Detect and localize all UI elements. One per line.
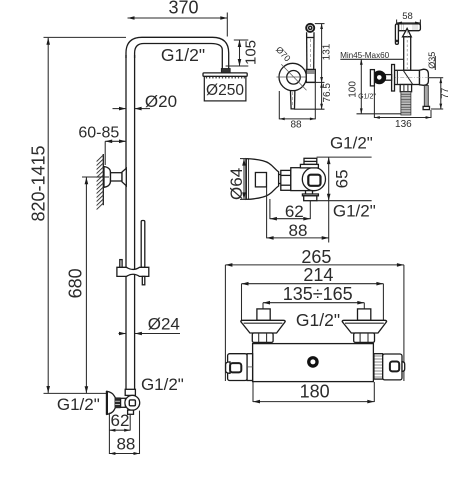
svg-text:62: 62 <box>285 202 304 221</box>
svg-text:820-1415: 820-1415 <box>28 145 48 221</box>
svg-text:G1/2": G1/2" <box>161 45 205 65</box>
svg-text:Ø250: Ø250 <box>206 82 244 99</box>
svg-text:131: 131 <box>322 43 333 60</box>
svg-text:265: 265 <box>301 247 331 267</box>
svg-text:G1/2": G1/2" <box>358 94 376 101</box>
svg-text:Ø64: Ø64 <box>227 168 246 200</box>
svg-text:60-85: 60-85 <box>78 125 119 142</box>
svg-text:58: 58 <box>402 11 413 22</box>
svg-text:G1/2": G1/2" <box>330 134 373 153</box>
svg-text:136: 136 <box>395 119 412 130</box>
svg-text:88: 88 <box>290 120 302 131</box>
svg-text:88: 88 <box>289 221 308 240</box>
svg-text:214: 214 <box>303 265 333 285</box>
svg-text:G1/2": G1/2" <box>57 395 100 414</box>
svg-text:105: 105 <box>243 40 260 65</box>
svg-text:65: 65 <box>333 169 352 188</box>
svg-text:76.5: 76.5 <box>322 83 333 103</box>
svg-text:77: 77 <box>440 87 451 99</box>
svg-text:G1/2": G1/2" <box>141 375 184 394</box>
svg-text:Ø24: Ø24 <box>148 315 180 334</box>
svg-text:G1/2": G1/2" <box>296 310 340 330</box>
svg-text:370: 370 <box>168 0 198 18</box>
svg-text:Min45-Max60: Min45-Max60 <box>340 51 390 60</box>
svg-text:135÷165: 135÷165 <box>283 284 353 304</box>
svg-text:G1/2": G1/2" <box>333 202 376 221</box>
svg-text:62: 62 <box>111 411 130 430</box>
svg-text:100: 100 <box>347 81 358 98</box>
svg-text:88: 88 <box>116 435 135 454</box>
svg-text:180: 180 <box>300 382 330 402</box>
svg-text:680: 680 <box>65 268 85 298</box>
